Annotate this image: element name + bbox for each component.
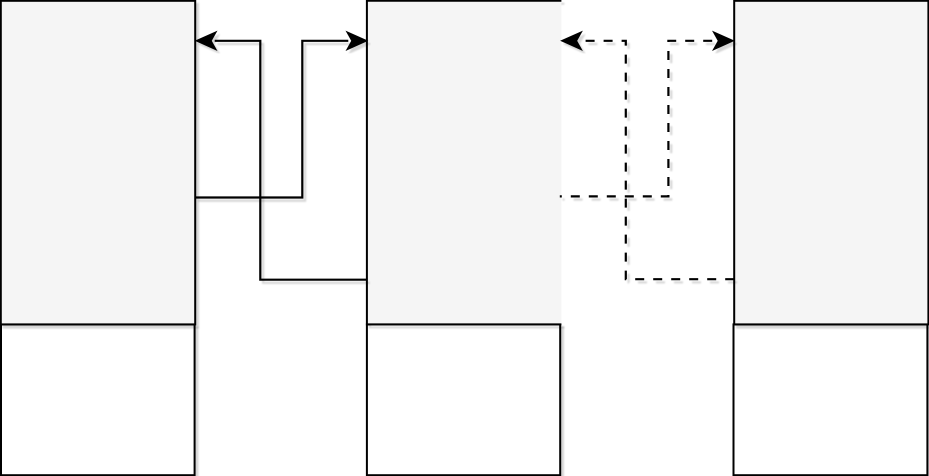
arrowhead: solid left-pointing at left box <box>197 33 215 49</box>
box: left column top panel (gray) <box>1 1 195 325</box>
arrowhead: dashed-line left-pointing at middle box <box>563 33 581 49</box>
wire: solid connector middle-panel to left-panel (exits middle box y=279.7, up, arrow into left box) <box>215 41 367 280</box>
box: right column top panel (gray) <box>734 1 928 325</box>
arrowhead: solid right-pointing at middle box <box>348 33 366 49</box>
box: left column bottom panel (white) <box>1 324 195 475</box>
arrowhead: dashed-line right-pointing at right box <box>715 33 733 49</box>
box: middle column top panel (gray, open right side) <box>367 1 562 325</box>
wire: dashed connector middle-panel to right-panel (exits middle box y=196.4, up, arrow into right box) <box>560 41 715 197</box>
box: right column bottom panel (white) <box>734 324 928 475</box>
wire: dashed connector right-panel to middle-panel (exits right box y=279.2, up, arrow into middle box) <box>580 41 734 279</box>
wire: solid connector left-panel to middle-panel (exits left box y=197.5, up, arrow into middle box) <box>195 41 348 198</box>
box: middle column bottom panel (white) <box>367 324 560 475</box>
border: middle column top panel left/top/bottom stroke <box>367 1 562 325</box>
